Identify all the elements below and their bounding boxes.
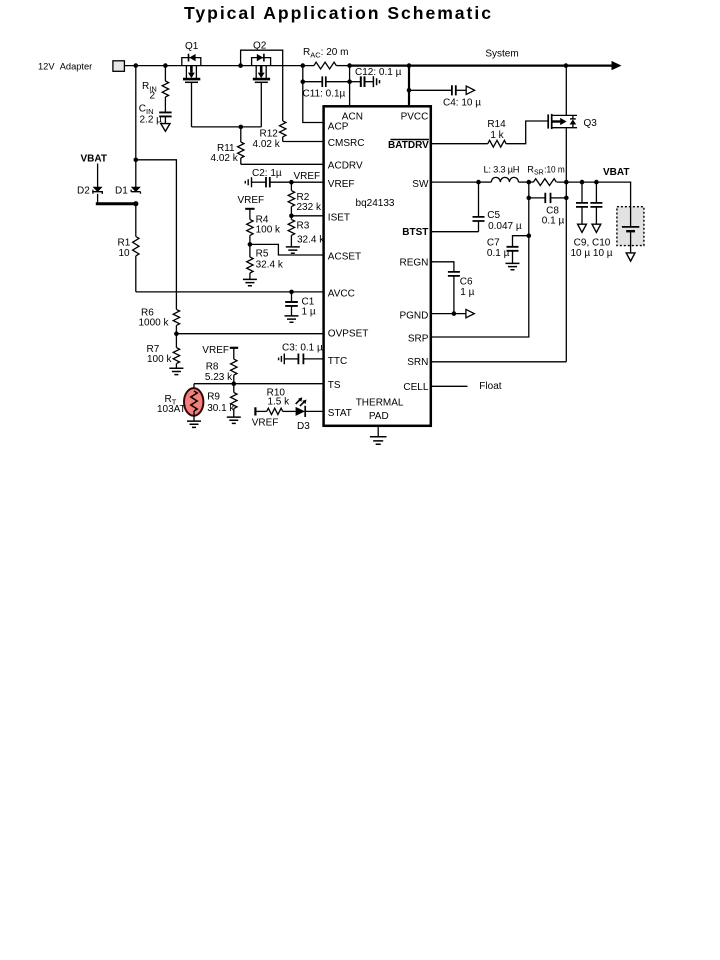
svg-text:C4: 10 µ: C4: 10 µ xyxy=(443,98,481,109)
wire: ACSET node to IC xyxy=(250,244,324,255)
wire: TS row to IC xyxy=(194,383,324,385)
wire: ACP drop and row to IC xyxy=(303,82,324,123)
svg-text:Q1: Q1 xyxy=(185,41,199,52)
svg-text:REGN: REGN xyxy=(399,257,428,268)
wire: AVCC row to IC xyxy=(136,291,324,293)
arrow: PGND (open) xyxy=(466,309,474,317)
diode D2 (schottky) xyxy=(77,185,102,196)
junction: Q1/Q2 common source xyxy=(238,63,243,68)
label THERMAL PAD xyxy=(356,397,404,421)
svg-text:4.02 k: 4.02 k xyxy=(253,139,281,150)
junction: C11 left node xyxy=(301,79,306,84)
wire: Q2 gate down to gate bus xyxy=(260,82,262,127)
svg-text:VREF: VREF xyxy=(252,417,279,428)
pin BATDRV (with overline) xyxy=(388,140,429,151)
svg-text:32.4 k: 32.4 k xyxy=(297,234,325,245)
ground: C7 xyxy=(506,263,520,269)
svg-text:2: 2 xyxy=(150,91,156,102)
wire: Q1 gate down to gate bus xyxy=(191,82,193,127)
wire: R6 bottom to OVPSET node xyxy=(175,325,177,333)
svg-text:ACSET: ACSET xyxy=(328,251,361,262)
resistor R8 5.23k xyxy=(205,348,237,384)
wire: branch to R6 top xyxy=(136,160,177,310)
ground: R7 xyxy=(169,368,183,374)
capacitor C2 1u (VREF decoupling) xyxy=(252,168,292,187)
LED D3 xyxy=(296,397,311,432)
ground: C1 xyxy=(285,316,299,322)
capacitor C5 0.047u (bootstrap) xyxy=(473,182,522,232)
wire: gate bus Q1-Q2 xyxy=(192,126,262,128)
power tap: VREF T-bar above R4 xyxy=(245,208,254,210)
svg-text:VREF: VREF xyxy=(328,179,355,190)
wire: Q2 source bypass loop to R12 xyxy=(241,50,283,121)
junction: PVCC tap xyxy=(407,63,412,68)
svg-text:2.2 µ: 2.2 µ xyxy=(140,114,163,125)
svg-text:PVCC: PVCC xyxy=(401,111,429,122)
svg-text:ACDRV: ACDRV xyxy=(328,161,363,172)
resistor R5 32.4k xyxy=(247,244,284,279)
wire: System rail (thick) with arrow xyxy=(350,49,622,71)
wire: inductor to RSR xyxy=(519,181,534,183)
resistor R10 1.5k (horizontal) xyxy=(267,387,291,414)
wire: RAC right to system node xyxy=(336,65,350,67)
wire: BATDRV row to R14 xyxy=(431,143,488,145)
wire: BTST row to IC xyxy=(431,231,479,233)
junction: R6/R7 OVPSET node xyxy=(174,331,179,336)
junction: RIN top xyxy=(163,63,168,68)
junction: C8 right node xyxy=(564,196,569,201)
resistor R11 4.02k xyxy=(211,127,245,164)
svg-text:System: System xyxy=(485,49,518,60)
wire: SRN row from IC xyxy=(431,361,567,363)
svg-text:C2: 1µ: C2: 1µ xyxy=(252,168,282,179)
wire: RSR right to VBAT corner xyxy=(557,182,631,207)
svg-text:R9: R9 xyxy=(207,391,220,402)
ground: sideways gnd at C12 right xyxy=(373,76,379,87)
junction: C11 right node xyxy=(347,79,352,84)
wire: Q3 drain up to system rail xyxy=(565,66,567,116)
svg-text:100 k: 100 k xyxy=(256,224,281,235)
wire: OR bar down to R1 xyxy=(135,204,137,237)
svg-text:TS: TS xyxy=(328,380,341,391)
svg-text:10: 10 xyxy=(119,248,131,259)
junction: C1 tap on AVCC row xyxy=(289,290,294,295)
wire: OVPSET row to IC xyxy=(176,333,323,335)
svg-text:0.047 µ: 0.047 µ xyxy=(488,221,522,232)
wire: RAC left node down to C11 left xyxy=(302,66,304,82)
svg-text:1 µ: 1 µ xyxy=(460,287,474,298)
svg-text:10 µ 10 µ: 10 µ 10 µ xyxy=(570,248,612,259)
wire: VBAT stub to D2 anode xyxy=(97,164,99,188)
svg-text:1 k: 1 k xyxy=(490,130,504,141)
wire: adapter pad to RAC left xyxy=(124,65,314,67)
capacitor C8 0.1u (across RSR) xyxy=(529,182,567,227)
thermistor RT 103AT xyxy=(157,384,203,421)
svg-text:Float: Float xyxy=(479,381,501,392)
wire: CMSRC row to IC xyxy=(283,141,324,143)
ground: R9 xyxy=(227,417,241,423)
ground: thermal pad xyxy=(370,426,387,444)
capacitor C11 0.1u xyxy=(303,76,350,99)
ground: R5 xyxy=(243,279,257,285)
svg-text:0.1 µ: 0.1 µ xyxy=(542,216,565,227)
resistor RIN 2 xyxy=(142,66,169,102)
arrow: C4 to system (open) xyxy=(466,86,474,94)
svg-text:BTST: BTST xyxy=(402,227,428,238)
ground: battery (open triangle) xyxy=(626,253,635,261)
wire: D3 cathode to STAT pin xyxy=(305,410,323,412)
svg-text:TTC: TTC xyxy=(328,356,347,367)
svg-text:R3: R3 xyxy=(297,221,310,232)
ground: R3 xyxy=(286,247,300,253)
ground: RT xyxy=(187,421,201,427)
ground: open triangle under CIN xyxy=(161,124,170,132)
transistor Q1 (P-ch MOSFET with body diode) xyxy=(182,41,201,82)
resistor R1 10 xyxy=(118,237,140,260)
wire: VREF bar to R10 xyxy=(255,410,266,412)
junction: OR bar to rail xyxy=(133,201,138,206)
svg-text:VREF: VREF xyxy=(294,171,321,182)
svg-text:C7: C7 xyxy=(487,237,500,248)
resistor R12 4.02k xyxy=(253,121,286,150)
svg-text:BATDRV: BATDRV xyxy=(388,140,429,151)
capacitor C3 0.1u (TTC) xyxy=(279,342,324,364)
inductor L 3.3uH xyxy=(484,163,520,182)
junction: C8 left node xyxy=(527,196,532,201)
wire: PGND row from IC xyxy=(431,313,466,315)
junction: C9 tap xyxy=(580,180,585,185)
junction: RSR left / SRP sense node xyxy=(527,180,532,185)
svg-text:32.4 k: 32.4 k xyxy=(256,259,284,270)
resistor R3 32.4k xyxy=(288,216,325,247)
svg-text:SW: SW xyxy=(412,179,429,190)
svg-text:C11: 0.1µ: C11: 0.1µ xyxy=(303,88,346,99)
svg-text:Q3: Q3 xyxy=(584,118,598,129)
svg-text:VREF: VREF xyxy=(202,345,229,356)
svg-text:OVPSET: OVPSET xyxy=(328,329,369,340)
capacitor C9 10u xyxy=(576,182,588,232)
resistor RAC 20m (horizontal) xyxy=(303,47,348,69)
resistor R4 100k xyxy=(247,209,281,245)
junction: RAC left sense node xyxy=(301,63,306,68)
wire: D2 cathode to OR bar xyxy=(97,194,99,203)
transistor Q2 (P-ch MOSFET with body diode) xyxy=(252,41,271,83)
svg-text:Typical Application Schematic: Typical Application Schematic xyxy=(184,3,491,23)
svg-text:232 k: 232 k xyxy=(297,202,322,213)
wire: CELL stub xyxy=(431,385,468,387)
junction: R6 branch tap on left rail xyxy=(134,158,139,163)
svg-text:1 µ: 1 µ xyxy=(302,307,316,318)
junction: C6/PGND node xyxy=(452,311,457,316)
svg-text:100 k: 100 k xyxy=(147,354,172,365)
wire: SRP row from IC up to sense node xyxy=(431,198,529,337)
junction: RAC right sense node xyxy=(347,63,352,68)
svg-text:VBAT: VBAT xyxy=(603,167,629,178)
junction: RSR right / SRN sense node xyxy=(564,180,569,185)
svg-text:5.23 k: 5.23 k xyxy=(205,372,233,383)
svg-text:0.1 µ: 0.1 µ xyxy=(487,248,510,259)
svg-text:CELL: CELL xyxy=(403,382,428,393)
svg-text:R14: R14 xyxy=(487,119,506,130)
svg-text:RAC: 20 m: RAC: 20 m xyxy=(303,47,348,60)
wire: VREF row to IC xyxy=(291,181,323,183)
svg-text:SRP: SRP xyxy=(408,334,429,345)
wire: SW node to inductor xyxy=(479,181,492,183)
op-amp/IC U1 bq24133 box xyxy=(324,106,431,426)
wire: R10 to D3 anode xyxy=(283,410,296,412)
connector: 12V adapter input pad xyxy=(113,61,125,72)
wire: ACDRV row to IC xyxy=(241,163,324,165)
capacitor C7 0.1u (SRP filter) xyxy=(487,236,529,264)
svg-text:1.5 k: 1.5 k xyxy=(267,397,290,408)
ground: sideways gnd at C2 left xyxy=(245,177,251,187)
resistor R7 100k xyxy=(147,334,180,369)
junction: C7 tap on SRP line xyxy=(527,233,532,238)
svg-text:AVCC: AVCC xyxy=(328,289,355,300)
capacitor C1 1u xyxy=(285,292,316,318)
resistor R6 1000k xyxy=(139,307,180,328)
junction: SW node / C5 tap xyxy=(476,180,481,185)
junction: VREF pin node xyxy=(289,180,294,185)
svg-text:ACP: ACP xyxy=(328,122,349,133)
svg-text:1000 k: 1000 k xyxy=(139,317,170,328)
svg-text:R1: R1 xyxy=(118,237,131,248)
resistor R2 232k xyxy=(288,182,322,216)
wire: left rail from adapter node down to D1 anode xyxy=(135,66,137,188)
wire: SW row from IC xyxy=(431,181,479,183)
junction: R8/R9 TS node xyxy=(232,381,237,386)
resistor RSR 10m (horizontal) xyxy=(527,164,565,185)
svg-text:ISET: ISET xyxy=(328,212,350,223)
capacitor C6 1u (REGN) xyxy=(431,262,475,314)
svg-text:30.1 k: 30.1 k xyxy=(207,403,235,414)
battery pack (dotted box) xyxy=(617,207,644,253)
wire: ACN drop from rail to IC top xyxy=(349,66,351,107)
svg-text:4.02 k: 4.02 k xyxy=(211,153,239,164)
svg-text:D3: D3 xyxy=(297,421,310,432)
svg-text:C12: 0.1 µ: C12: 0.1 µ xyxy=(355,67,402,78)
svg-text:103AT: 103AT xyxy=(157,404,186,415)
junction: R4/R5 ACSET node xyxy=(248,242,253,247)
svg-text:L: 3.3 µH: L: 3.3 µH xyxy=(484,163,520,174)
svg-text:D1: D1 xyxy=(115,185,128,196)
wire: R1 bottom to AVCC row xyxy=(135,256,137,292)
wire: thick OR bar D2/D1 cathodes xyxy=(96,202,136,205)
resistor R9 30.1k xyxy=(207,384,237,417)
junction: C4 tap on PVCC xyxy=(407,88,412,93)
svg-text:12V Adapter: 12V Adapter xyxy=(38,61,92,71)
power tap: VREF T-bar above R8 xyxy=(230,347,238,349)
svg-text:D2: D2 xyxy=(77,185,90,196)
junction: C10 tap xyxy=(594,180,599,185)
capacitor C10 10u xyxy=(570,182,612,259)
svg-text:C1: C1 xyxy=(302,296,315,307)
capacitor CIN 2.2u xyxy=(139,97,172,125)
svg-text:VREF: VREF xyxy=(238,195,265,206)
svg-text:C5: C5 xyxy=(487,210,500,221)
junction: Q3 drain tap xyxy=(564,63,569,68)
svg-text:CMSRC: CMSRC xyxy=(328,138,365,149)
svg-text:THERMAL: THERMAL xyxy=(356,397,404,408)
wire: R14 to Q3 gate xyxy=(506,121,548,144)
power tap: VREF bar at R10 xyxy=(254,407,256,415)
junction: adapter node / left rail xyxy=(134,63,139,68)
diode D1 (schottky) xyxy=(115,185,141,196)
transistor Q3 (N-ch MOSFET with body diode) xyxy=(548,114,597,129)
svg-text:bq24133: bq24133 xyxy=(356,198,395,209)
resistor R14 1k (horizontal) xyxy=(487,119,506,147)
junction: gate bus / R11 xyxy=(239,125,244,130)
svg-text:PGND: PGND xyxy=(399,311,428,322)
svg-text:C3: 0.1 µ: C3: 0.1 µ xyxy=(282,342,323,353)
capacitor C4 10u xyxy=(409,85,481,109)
svg-text:SRN: SRN xyxy=(407,357,428,368)
capacitor C12 0.1u xyxy=(350,67,402,87)
junction: R2/R3 ISET node xyxy=(289,214,294,219)
svg-text:ACN: ACN xyxy=(342,111,363,122)
svg-text:PAD: PAD xyxy=(369,411,389,422)
svg-text:R5: R5 xyxy=(256,249,269,260)
wire: ISET row to IC xyxy=(291,215,323,217)
svg-text:VBAT: VBAT xyxy=(81,153,107,164)
svg-text:STAT: STAT xyxy=(328,408,352,419)
wire: Q3 source down to SRN row xyxy=(565,128,567,362)
wire: PVCC drop (thick) xyxy=(408,66,410,107)
